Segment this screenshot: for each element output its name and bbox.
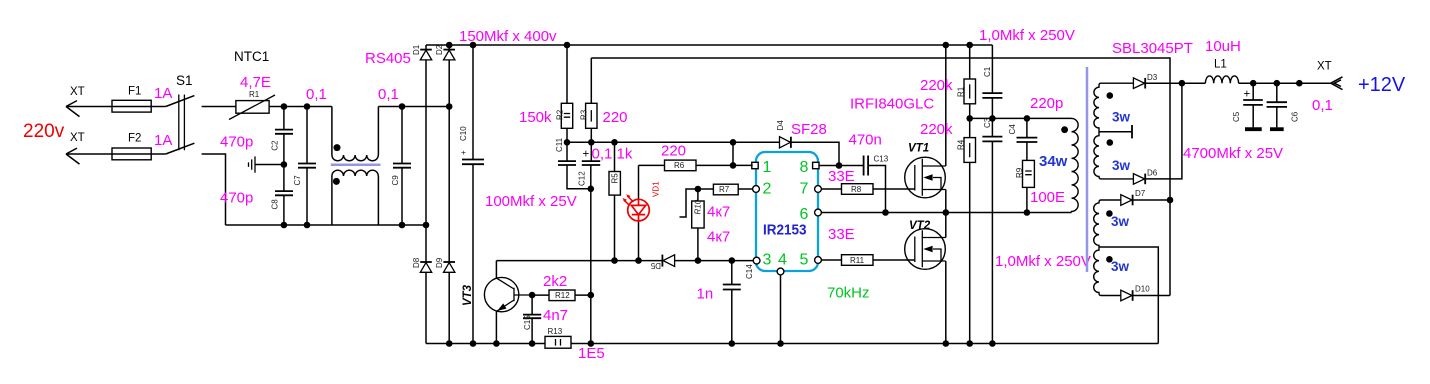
resistor R9 100E <box>1015 160 1065 212</box>
capacitor C14 1n <box>697 261 755 344</box>
svg-text:7: 7 <box>800 181 809 198</box>
wire aux center tap to ground rail <box>1099 247 1158 344</box>
svg-text:220k: 220k <box>920 77 953 94</box>
node junction R5 bottom <box>611 257 618 264</box>
svg-text:C7: C7 <box>293 175 302 186</box>
resistor R3 220 <box>580 58 628 142</box>
node junction R10 bottom <box>695 257 702 264</box>
node junction C3 rail <box>989 340 996 347</box>
svg-text:+: + <box>1244 89 1251 101</box>
svg-text:D5: D5 <box>650 261 661 270</box>
diode D6 <box>1133 83 1182 184</box>
node junction R12/C12 line <box>588 292 595 299</box>
node +12V output label <box>1358 74 1406 96</box>
svg-text:C11: C11 <box>555 137 564 152</box>
resistor R12 2k2 <box>532 273 591 301</box>
svg-text:D3: D3 <box>1147 73 1158 82</box>
pin 4 terminal <box>777 268 784 343</box>
node XT input label bottom <box>70 132 85 144</box>
svg-text:D7: D7 <box>1135 189 1146 198</box>
wire bottom rail left <box>426 343 545 345</box>
svg-text:NTC1: NTC1 <box>234 49 269 64</box>
svg-text:C10: C10 <box>459 126 468 141</box>
svg-text:L1: L1 <box>1214 59 1227 71</box>
svg-text:33E: 33E <box>828 226 855 243</box>
svg-text:+: + <box>583 149 590 161</box>
svg-text:1E5: 1E5 <box>578 345 605 362</box>
label 0,1 1k <box>592 146 633 163</box>
svg-text:C15: C15 <box>523 315 532 330</box>
capacitor C7 0,1 <box>293 86 327 225</box>
node junction R2 top rail <box>564 42 571 49</box>
svg-text:D4: D4 <box>776 120 785 131</box>
wire bottom rail right <box>571 343 1158 345</box>
svg-text:4: 4 <box>778 252 787 269</box>
diode D7 <box>1121 189 1170 205</box>
diode D9 bridge <box>435 257 455 343</box>
svg-text:5: 5 <box>800 252 809 269</box>
diode D5 <box>650 255 674 270</box>
node junction D3/D6 <box>1179 80 1186 87</box>
svg-text:F1: F1 <box>128 86 141 98</box>
wire pin3 line <box>496 260 752 262</box>
wire live choke to bridge <box>378 106 449 108</box>
node junction C11/C12 bottom <box>588 186 595 193</box>
svg-text:4к7: 4к7 <box>707 204 730 221</box>
svg-text:R1: R1 <box>957 86 966 97</box>
svg-text:1: 1 <box>763 159 772 176</box>
node junction VT2 source rail <box>943 340 950 347</box>
wire switch neutral down-corner <box>202 154 226 225</box>
capacitor C5 4700Mkf <box>1232 83 1263 129</box>
node junction live to bridge <box>446 103 453 110</box>
svg-text:C8: C8 <box>271 199 280 210</box>
pin 7 terminal <box>815 186 822 193</box>
svg-text:R12: R12 <box>555 291 570 300</box>
capacitor C2 470p <box>220 107 293 165</box>
diode D1 bridge <box>412 44 432 262</box>
svg-text:4к7: 4к7 <box>707 229 730 246</box>
node junction VD1 bottom <box>635 257 642 264</box>
thermistor NTC1 4,7E <box>229 49 275 120</box>
label IRFI840GLC <box>850 96 934 113</box>
node junction C7 bottom <box>304 222 311 229</box>
wire live input with connector arrow <box>66 101 166 117</box>
svg-text:100E: 100E <box>1030 189 1065 206</box>
svg-text:150Mkf x 400v: 150Mkf x 400v <box>459 28 557 45</box>
svg-text:220: 220 <box>603 109 628 126</box>
svg-text:100Mkf x 25V: 100Mkf x 25V <box>485 193 577 210</box>
node junction C9 top <box>399 103 406 110</box>
svg-text:RS405: RS405 <box>365 50 411 67</box>
svg-text:3w: 3w <box>1112 110 1131 125</box>
node junction R1/R4 <box>966 115 973 122</box>
diode D10 <box>1121 285 1170 301</box>
svg-text:D1: D1 <box>412 44 421 55</box>
pin 6 terminal <box>815 209 822 216</box>
svg-text:C5: C5 <box>1232 111 1241 122</box>
svg-text:150k: 150k <box>519 109 552 126</box>
svg-text:VD1: VD1 <box>652 181 661 197</box>
capacitor C11 0,1 <box>555 137 591 188</box>
svg-text:C9: C9 <box>391 175 400 186</box>
node 220v mains label <box>23 121 65 142</box>
svg-text:R7: R7 <box>719 185 730 194</box>
capacitor C3 1,0Mkf <box>982 117 1002 343</box>
svg-text:33E: 33E <box>828 168 855 185</box>
fuse F1 1A <box>112 85 172 112</box>
node junction C12 rail <box>588 340 595 347</box>
svg-text:1,0Mkf x 250V: 1,0Mkf x 250V <box>995 253 1091 270</box>
capacitor C13 470n <box>849 132 889 213</box>
resistor R7 4k7 <box>680 184 753 217</box>
svg-text:2k2: 2k2 <box>543 273 567 290</box>
svg-text:C6: C6 <box>1291 111 1300 122</box>
node junction pin1 branch top <box>730 139 737 165</box>
node junction D2 top rail <box>446 42 453 49</box>
node junction R4 rail <box>966 340 973 347</box>
svg-text:C12: C12 <box>578 171 587 186</box>
resistor R11 33E <box>821 255 914 266</box>
transformer secondary top group <box>1094 83 1134 179</box>
svg-text:SF28: SF28 <box>791 121 827 138</box>
svg-text:R13: R13 <box>548 327 563 336</box>
node junction C2 top <box>281 103 288 110</box>
node XT output label <box>1317 61 1332 73</box>
svg-text:1A: 1A <box>154 132 172 149</box>
node junction VT3 base <box>529 292 536 299</box>
label 34w primary <box>1039 153 1068 170</box>
node junction pin8/C13 <box>819 162 863 169</box>
svg-text:3w: 3w <box>1111 214 1130 229</box>
label SBL3045PT <box>1112 40 1193 57</box>
svg-text:R3: R3 <box>580 109 589 120</box>
transformer aux winding group <box>1094 200 1130 296</box>
svg-text:1n: 1n <box>697 286 714 303</box>
svg-text:R2: R2 <box>556 109 565 120</box>
svg-text:SBL3045PT: SBL3045PT <box>1112 40 1193 57</box>
pin 1 terminal <box>752 162 758 168</box>
node junction C9 bottom <box>399 222 406 229</box>
resistor R6 220 <box>639 143 753 171</box>
pin 3 terminal <box>753 257 760 264</box>
svg-text:0,1: 0,1 <box>378 86 399 103</box>
label 1,0Mkf x 250V top <box>979 27 1075 44</box>
svg-text:3w: 3w <box>1111 259 1130 274</box>
label 33E lower <box>828 226 855 243</box>
wire divider node line <box>970 117 1072 119</box>
svg-text:S1: S1 <box>176 73 193 88</box>
svg-text:IRFI840GLC: IRFI840GLC <box>850 96 934 113</box>
svg-text:70kHz: 70kHz <box>827 285 870 302</box>
wire switch to NTC <box>202 106 236 108</box>
label 33E upper <box>828 168 855 185</box>
switch S1 double pole <box>166 73 195 154</box>
svg-text:D6: D6 <box>1147 169 1158 178</box>
wire aux supply line <box>591 58 1170 200</box>
svg-text:R1: R1 <box>249 90 260 99</box>
svg-text:R11: R11 <box>850 256 865 265</box>
label 1,0Mkf x 250V bottom <box>995 253 1091 270</box>
svg-text:+12V: +12V <box>1358 74 1406 96</box>
svg-text:R9: R9 <box>1015 167 1024 178</box>
node junction output stub <box>1296 80 1303 87</box>
capacitor C9 0,1 <box>378 86 411 225</box>
diode D4 SF28 <box>776 120 839 166</box>
transistor VT2 IRFI840GLC <box>905 213 946 344</box>
node junction C14 rail <box>729 340 736 347</box>
svg-text:0,1: 0,1 <box>306 86 327 103</box>
label 4700Mkf x 25V <box>1183 145 1283 162</box>
svg-text:1,0Mkf x 250V: 1,0Mkf x 250V <box>979 27 1075 44</box>
transformer secondary center tap terminator <box>1099 125 1132 138</box>
diode D8 bridge <box>412 257 432 343</box>
resistor R8 33E <box>821 184 914 195</box>
node junction D9 bottom rail <box>446 340 453 347</box>
capacitor C12 electrolytic <box>578 142 601 343</box>
fuse F2 1A <box>112 132 172 160</box>
node junction C11 <box>564 139 571 146</box>
node junction D7/aux <box>1167 197 1174 296</box>
svg-text:220v: 220v <box>23 121 65 142</box>
svg-text:D9: D9 <box>435 257 444 268</box>
svg-text:6: 6 <box>800 206 809 223</box>
svg-text:470p: 470p <box>220 134 253 151</box>
svg-text:R5: R5 <box>610 173 619 184</box>
svg-text:C14: C14 <box>745 264 754 279</box>
wire live NTC to bridge <box>269 106 332 108</box>
node junction pin1 branch bottom <box>730 162 737 169</box>
node junction C10 top rail <box>470 42 477 49</box>
svg-text:470n: 470n <box>849 132 882 149</box>
svg-text:C2: C2 <box>271 140 280 151</box>
svg-text:4,7E: 4,7E <box>240 74 271 91</box>
wire top rail +310V <box>426 44 992 46</box>
IC U1 IR2153 <box>756 152 818 271</box>
node junction R10 top <box>695 186 702 193</box>
node junction VT3 emitter rail <box>493 340 500 347</box>
node junction VT1/VT2 mid <box>943 209 950 216</box>
node junction C7 top <box>304 103 311 110</box>
svg-text:R6: R6 <box>674 161 685 170</box>
wire Vcc node line <box>567 141 780 143</box>
capacitor C6 0,1 <box>1267 83 1333 129</box>
wire neutral input with connector arrow <box>66 148 166 164</box>
svg-text:1A: 1A <box>154 85 172 102</box>
common-mode choke top winding <box>332 107 379 161</box>
svg-text:IR2153: IR2153 <box>763 222 807 239</box>
resistor R4 220k <box>920 118 976 343</box>
svg-text:+: + <box>459 150 468 155</box>
node junction C2/C8 ground <box>281 161 288 168</box>
ground symbol <box>249 156 284 172</box>
node junction C12 <box>588 139 595 146</box>
pin 5 terminal <box>815 257 822 264</box>
svg-text:10uH: 10uH <box>1205 38 1241 55</box>
label SF28 wire pin1 <box>752 164 754 166</box>
node junction C14 top <box>729 257 736 264</box>
svg-text:D2: D2 <box>435 44 444 55</box>
common-mode choke core <box>331 164 381 167</box>
node junction C5 <box>1250 80 1257 87</box>
svg-text:XT: XT <box>1317 61 1332 73</box>
node junction C10 bottom rail <box>470 340 477 347</box>
svg-text:C1: C1 <box>983 66 992 77</box>
pin 2 terminal <box>753 186 760 193</box>
svg-text:220k: 220k <box>920 121 953 138</box>
resistor R1 220k <box>920 45 976 118</box>
svg-text:4700Mkf x 25V: 4700Mkf x 25V <box>1183 145 1283 162</box>
svg-text:VT1: VT1 <box>908 143 929 155</box>
svg-text:R4: R4 <box>957 139 966 150</box>
capacitor C8 470p <box>220 165 293 226</box>
pin 8 terminal <box>813 162 819 168</box>
diode D2 bridge <box>435 44 455 262</box>
svg-text:C13: C13 <box>874 155 889 164</box>
svg-text:D8: D8 <box>412 257 421 268</box>
svg-text:F2: F2 <box>128 133 141 145</box>
resistor R2 150k <box>519 45 573 142</box>
svg-text:XT: XT <box>70 132 85 144</box>
svg-text:220p: 220p <box>1030 95 1063 112</box>
transformer primary winding 34w <box>1061 118 1078 212</box>
svg-text:C4: C4 <box>1008 124 1017 135</box>
wire neutral line <box>226 224 427 226</box>
svg-text:4n7: 4n7 <box>543 307 568 324</box>
svg-text:220: 220 <box>661 143 686 160</box>
svg-text:34w: 34w <box>1039 153 1068 170</box>
wire output rectified line <box>1145 77 1342 90</box>
capacitor C10 150Mkf x 400v <box>459 28 557 344</box>
node junction VT1 drain rail <box>943 42 950 49</box>
svg-text:0,1 1k: 0,1 1k <box>592 146 633 163</box>
node junction neutral to bridge <box>423 222 430 229</box>
transistor VT3 <box>462 261 532 344</box>
common-mode choke bottom winding <box>332 170 379 225</box>
svg-text:3: 3 <box>763 252 772 269</box>
transistor VT1 IRFI840GLC <box>905 45 946 213</box>
node junction C6 <box>1274 80 1281 87</box>
diode D3 <box>1133 73 1157 89</box>
svg-text:470p: 470p <box>220 190 253 207</box>
capacitor C15 4n7 <box>523 295 568 343</box>
node junction C8 bottom <box>281 222 288 229</box>
wire half-bridge mid line <box>821 212 1071 214</box>
svg-text:3w: 3w <box>1112 158 1131 173</box>
node junction C13 mid <box>882 209 889 216</box>
svg-text:VT2: VT2 <box>909 220 931 232</box>
resistor R10 4k7 <box>692 189 731 261</box>
svg-text:8: 8 <box>800 159 809 176</box>
capacitor C4 220p <box>1008 95 1063 160</box>
LED VD1 <box>623 165 661 260</box>
capacitor C1 1,0Mkf <box>982 45 1002 118</box>
node junction C1/C3 <box>989 115 996 122</box>
node junction R5 <box>611 139 618 146</box>
transformer T1 core <box>1086 67 1089 272</box>
svg-text:R10: R10 <box>693 199 702 214</box>
svg-text:VT3: VT3 <box>462 284 474 306</box>
node junction C15 rail <box>529 340 536 347</box>
inductor L1 10uH <box>1205 38 1241 83</box>
svg-text:D10: D10 <box>1135 285 1150 294</box>
label 100Mkf x 25V <box>485 193 577 210</box>
node junction pin4 rail <box>777 340 784 347</box>
bridge RS405 label <box>365 50 411 67</box>
node junction R1 rail <box>966 42 973 49</box>
node junction R9 mid <box>1024 209 1031 216</box>
svg-text:R8: R8 <box>851 185 862 194</box>
resistor R13 1E5 current sense <box>545 327 605 362</box>
svg-text:0,1: 0,1 <box>1312 97 1333 114</box>
label 70kHz <box>827 285 870 302</box>
svg-text:2: 2 <box>763 181 772 198</box>
resistor R5 1k <box>609 142 620 260</box>
node XT input label top <box>70 86 85 98</box>
node junction C4 top <box>1024 115 1031 122</box>
svg-text:XT: XT <box>70 86 85 98</box>
svg-text:C3: C3 <box>983 117 992 128</box>
